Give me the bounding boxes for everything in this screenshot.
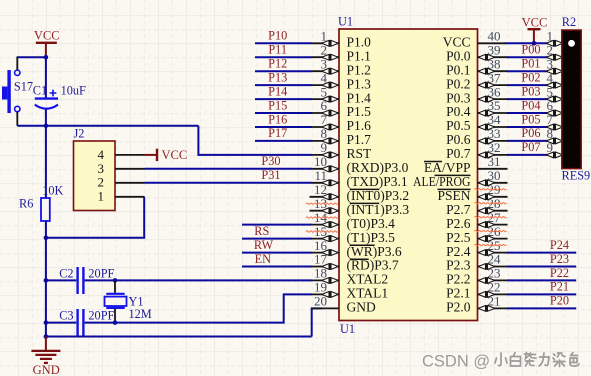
svg-text:U1: U1 [338,15,353,29]
wire J2.1 to ground rail [45,197,144,238]
resistor network R2 RES9 [562,15,591,183]
svg-text:1: 1 [98,189,105,204]
svg-text:U1: U1 [340,322,355,336]
wire switch bottom rail [17,125,198,127]
svg-text:P1.7: P1.7 [347,132,372,147]
svg-text:GND: GND [347,300,376,315]
pin 8 stub and marker [312,138,340,145]
svg-text:P2.0: P2.0 [446,300,471,315]
pin 14 stub and marker [312,221,340,228]
pin 6 stub and marker [312,110,340,117]
svg-text:C2: C2 [59,266,73,280]
svg-text:40: 40 [488,29,501,44]
svg-text:P1.3: P1.3 [347,76,372,91]
svg-text:P2.1: P2.1 [446,286,470,301]
pin 12 stub and marker [310,193,340,200]
svg-text:P2.3: P2.3 [446,258,471,273]
label P05 [521,112,540,126]
capacitor C1 10uF [33,57,86,126]
svg-text:7: 7 [547,112,554,127]
svg-text:P21: P21 [550,280,569,294]
pin 2 stub and marker [312,54,340,61]
wire net XTAL2 [85,279,312,281]
pin 9 stub and marker [312,152,340,159]
wire net P17 [255,140,312,142]
wire net P07 (pin 32 to RES9) [478,152,563,159]
U1 right pin numbers 40-21 [488,29,502,309]
pin 15 stub and marker [312,235,340,242]
power VCC (top left) [34,29,60,56]
svg-text:EN: EN [255,252,272,266]
svg-text:ALE/PROG: ALE/PROG [413,174,471,189]
svg-text:P14: P14 [268,84,287,98]
label P01 [521,57,540,71]
label P00 [521,43,540,57]
svg-text:3: 3 [98,161,105,176]
wire net P23 (pin 24) [478,263,577,270]
ground GND [31,337,60,376]
svg-text:P22: P22 [550,266,569,280]
svg-text:8: 8 [547,126,554,141]
svg-text:P1.6: P1.6 [347,118,372,133]
wire net P14 [255,98,312,100]
pin 28 stub and marker [478,207,508,214]
wire net P00 (pin 39 to RES9) [478,54,563,61]
svg-text:(T1)P3.5: (T1)P3.5 [347,230,396,245]
pin 4 stub and marker [312,82,340,89]
pin 5 stub and marker [312,96,340,103]
svg-text:P2.6: P2.6 [446,216,471,231]
label P31 [261,168,280,182]
svg-text:J2: J2 [74,127,85,141]
node junction rail/C2 [44,278,49,283]
label P30 [261,154,280,168]
wire (row 14) [242,224,312,226]
svg-text:VCC: VCC [522,16,548,30]
svg-text:P11: P11 [268,43,287,57]
switch S17 [2,70,33,113]
pin 13 stub and marker [310,207,340,214]
node junction below C1 [44,124,49,129]
svg-text:(TXD)P3.1: (TXD)P3.1 [347,174,408,189]
pin J2.3 stub [115,168,145,170]
wire net P13 [255,84,312,86]
label P23 [550,252,569,266]
wire rail to R6 [45,126,47,198]
error squiggles left (pins 12-14) [306,203,338,232]
label EN [255,252,272,266]
wire net P12 [255,70,312,72]
label P14 [268,84,287,98]
U1 left pin name overlines (INT0, INT1, WR, RD) [350,189,379,259]
wire GND pin 20 connection [312,308,322,336]
svg-text:R2: R2 [562,15,576,29]
svg-text:P0.5: P0.5 [446,118,471,133]
svg-text:VCC: VCC [162,148,188,162]
label P06 [521,126,540,140]
label P12 [268,57,287,71]
label P17 [268,126,287,140]
node junction at rail/J2.1 [44,236,49,241]
node junction rail/ground [44,334,49,339]
svg-text:P0.4: P0.4 [446,104,471,119]
node junction rail/C3 [44,320,49,325]
svg-text:1: 1 [547,29,554,44]
node VCC junction [44,55,49,60]
pin 19 stub and marker [312,291,340,298]
op-amp U1 body (MCU 8051) [338,15,478,336]
label P16 [268,112,287,126]
pin 3 stub and marker [312,68,340,75]
svg-text:3: 3 [547,56,554,71]
pin 31 stub [478,168,508,170]
svg-text:P13: P13 [268,70,287,84]
label P10 [268,29,287,43]
marker RES9 pin 1 [546,40,563,47]
capacitor C3 20PF [46,308,115,336]
svg-text:6: 6 [547,98,554,113]
pin 29 stub and marker [478,193,508,200]
wire rail below R6 [45,221,47,337]
RES9 pin numbers 1-9 [547,29,554,156]
svg-text:P04: P04 [521,98,540,112]
pin 11 stub and marker [312,180,340,187]
label P13 [268,70,287,84]
svg-text:9: 9 [547,140,554,155]
svg-text:P1.0: P1.0 [347,35,372,50]
crystal Y1 12M [105,280,152,322]
wire VCC node to switch (top rail) [17,56,46,58]
svg-text:2: 2 [98,175,105,190]
svg-text:P02: P02 [521,70,540,84]
label P03 [521,84,540,98]
svg-text:P2.7: P2.7 [446,202,471,217]
pin 40 wire to VCC and RES9 pin 1 [478,42,562,44]
wire net P15 [255,112,312,114]
svg-text:12M: 12M [129,307,152,321]
svg-text:5: 5 [547,84,554,99]
label P20 [550,294,569,308]
pin 10 stub and marker [312,166,340,173]
pin J2.2 stub [115,182,145,184]
svg-text:P16: P16 [268,112,287,126]
label P24 [550,238,569,252]
svg-text:2: 2 [547,43,554,58]
label P11 [268,43,287,57]
label P04 [521,98,540,112]
svg-text:P07: P07 [521,140,540,154]
pin 20 stub [312,307,339,309]
wire net P06 (pin 33 to RES9) [478,138,563,145]
resistor R6 10K [19,183,63,221]
pin 16 stub and marker [312,249,340,256]
svg-text:P0.7: P0.7 [446,146,471,161]
svg-text:CSDN @: CSDN @ [422,352,490,370]
wire switch top lead [16,57,18,71]
wire net P02 (pin 37 to RES9) [478,82,563,89]
svg-text:RS: RS [254,224,269,238]
wire net P30 from J2.3 [145,168,312,170]
wire net P24 (pin 25) [478,249,577,256]
label RW [254,238,274,252]
svg-text:P31: P31 [261,168,280,182]
svg-text:C1: C1 [33,83,47,97]
wire net P11 [255,56,312,58]
pin 7 stub and marker [312,124,340,131]
svg-text:C3: C3 [59,308,73,322]
label P22 [550,266,569,280]
wire net P21 (pin 22) [478,291,577,298]
svg-text:XTAL1: XTAL1 [347,286,389,301]
svg-text:P24: P24 [550,238,569,252]
label RS [254,224,269,238]
U1 right pin names [413,35,471,315]
wire net P03 (pin 36 to RES9) [478,96,563,103]
svg-text:P05: P05 [521,112,540,126]
svg-text:R6: R6 [19,197,33,211]
svg-text:P10: P10 [268,29,287,43]
wire net RS [242,238,312,240]
svg-text:P1.5: P1.5 [347,104,372,119]
svg-text:GND: GND [33,363,60,376]
wire net EN [242,266,312,268]
wire switch bottom lead [16,112,18,126]
wire net P22 (pin 23) [478,277,577,284]
pin J2.4 stub [115,154,145,156]
svg-text:P1.1: P1.1 [347,49,371,64]
label P07 [521,140,540,154]
node junction VCC/pin40 [532,41,537,46]
U1 right pin name overlines (EA, PROG, PSEN) [424,162,471,190]
watermark CSDN [422,352,579,370]
svg-text:P2.5: P2.5 [446,230,471,245]
svg-text:4: 4 [98,147,105,162]
capacitor C2 20PF [46,266,115,294]
connector J2 [74,127,116,211]
svg-text:20PF: 20PF [88,266,114,280]
pin 30 stub and marker [478,180,508,187]
wire net P10 [255,42,312,44]
wire net P31 from J2.2 [145,182,312,184]
svg-text:P30: P30 [261,154,280,168]
svg-text:RES9: RES9 [562,169,591,183]
svg-text:P0.3: P0.3 [446,90,471,105]
svg-text:P15: P15 [268,98,287,112]
svg-text:P00: P00 [521,43,540,57]
svg-text:VCC: VCC [443,35,471,50]
wire net XTAL1 [85,294,312,322]
svg-text:P17: P17 [268,126,287,140]
wire net P20 (pin 21) [478,305,577,312]
wire ground rail [46,336,312,338]
svg-text:P0.2: P0.2 [446,76,470,91]
svg-text:(T0)P3.4: (T0)P3.4 [347,216,396,231]
svg-text:20PF: 20PF [88,308,114,322]
svg-text:RW: RW [254,238,274,252]
pin 27 stub and marker [478,221,508,228]
svg-text:P12: P12 [268,57,287,71]
svg-text:VCC: VCC [34,29,60,43]
wire to RST pin 9 [198,126,311,155]
svg-text:P0.6: P0.6 [446,132,471,147]
svg-text:10K: 10K [42,183,63,197]
U1 left pin numbers 1-20 [314,29,328,309]
svg-text:4: 4 [547,70,554,85]
pin 1 stub and marker [312,40,340,47]
power VCC (top right) [522,16,548,44]
svg-text:P06: P06 [521,126,540,140]
node junction XTAL1/Y1 [113,320,118,325]
label P02 [521,70,540,84]
wire net P04 (pin 35 to RES9) [478,110,563,117]
pin 17 stub and marker [312,263,340,270]
svg-text:P2.4: P2.4 [446,244,471,259]
label P21 [550,280,569,294]
svg-text:P2.2: P2.2 [446,272,470,287]
svg-text:P23: P23 [550,252,569,266]
U1 left pin names [347,35,410,315]
svg-text:P0.1: P0.1 [446,62,470,77]
error squiggles right (pins 30-26) [475,189,507,246]
node junction XTAL2/Y1 [113,278,118,283]
pin 18 stub and marker [312,277,340,284]
svg-text:10uF: 10uF [61,83,86,97]
svg-text:(WR)P3.6: (WR)P3.6 [347,244,402,259]
svg-text:P1.2: P1.2 [347,62,371,77]
wire net P05 (pin 34 to RES9) [478,124,563,131]
svg-text:XTAL2: XTAL2 [347,272,389,287]
svg-text:P0.0: P0.0 [446,49,471,64]
pin J2.1 stub [115,196,145,198]
pin 26 stub and marker [478,235,508,242]
wire net P16 [255,126,312,128]
svg-text:P1.4: P1.4 [347,90,372,105]
svg-text:RST: RST [347,146,373,161]
svg-text:S17: S17 [14,80,33,94]
label P15 [268,98,287,112]
svg-text:P01: P01 [521,57,540,71]
wire net P01 (pin 38 to RES9) [478,68,563,75]
power VCC (at J2 pin 4) [145,148,188,162]
svg-text:(RXD)P3.0: (RXD)P3.0 [347,160,409,175]
svg-text:P20: P20 [550,294,569,308]
svg-text:P03: P03 [521,84,540,98]
wire net RW [242,252,312,254]
